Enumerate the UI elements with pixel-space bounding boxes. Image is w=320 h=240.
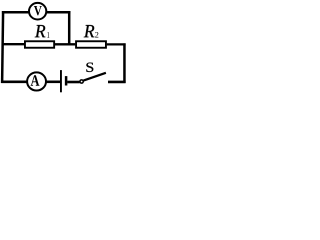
wire: ammeter to battery [46,81,60,84]
wire: right rail [123,43,126,83]
wire: voltmeter branch vertical drop [68,11,71,45]
wire: segment between R1 and R2 [55,43,75,45]
ammeter label A [31,75,40,85]
wire: resistor row left segment [2,43,25,45]
wire: top left segment to voltmeter [2,11,29,14]
wire: battery to switch [67,81,80,84]
switch lever S [83,73,106,81]
battery short plate [65,76,68,85]
ammeter circle A [27,72,46,90]
resistor R1 [25,41,54,48]
wire: top right segment from voltmeter [47,11,71,14]
label R2 (with subscript 2) [84,25,95,37]
resistor R2 [76,41,106,48]
battery long plate [60,70,62,92]
voltmeter label V [34,6,42,15]
wire: bottom left segment [1,81,27,84]
wire: left rail [2,11,3,83]
wire: resistor row right segment [107,43,126,45]
switch pivot circle [80,80,83,83]
label R1 (with subscript 1) [35,25,46,37]
voltmeter V (circle) [29,3,46,20]
wire: switch to bottom right corner [108,81,126,84]
switch label S [86,63,93,72]
